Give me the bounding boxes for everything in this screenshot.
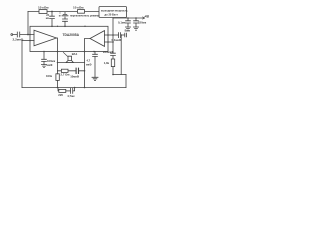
capacitor C8 output 0.1uF bbox=[118, 33, 126, 38]
bottom RC jog: stub down bbox=[57, 88, 60, 91]
svg-text:10мкФ: 10мкФ bbox=[70, 74, 80, 78]
pin dot right edge y=42 bbox=[107, 41, 109, 43]
pin dot bottom x=57.5 bbox=[57, 51, 59, 53]
wire bottom rail y=87.5 bbox=[22, 87, 126, 89]
wire +V rail bbox=[113, 17, 144, 19]
speaker rail wire y=62.5 bbox=[58, 62, 85, 64]
ground under C7 bbox=[41, 65, 46, 68]
junction x=122 on y=35 wire bbox=[120, 34, 122, 36]
wire lower input bbox=[22, 40, 34, 42]
resistor R6 bottom bbox=[59, 89, 66, 92]
pin dot bottom x=84.5 bbox=[84, 51, 86, 53]
svg-text:+В: +В bbox=[144, 14, 149, 18]
svg-text:TDA2005A: TDA2005A bbox=[63, 33, 80, 37]
wire left output down x=57.5 bbox=[57, 38, 58, 71]
svg-text:до 20 Ватт: до 20 Ватт bbox=[105, 13, 119, 17]
wire right amp upper input/output coupling y=35 bbox=[105, 34, 119, 36]
loudspeaker BA1 bbox=[66, 56, 74, 62]
junction bottom rail at x=74.6 bbox=[74, 87, 76, 89]
svg-text:м: м bbox=[59, 15, 61, 18]
svg-text:4,7мк: 4,7мк bbox=[67, 94, 75, 98]
capacitor C1 input (x=17.5..19.5) bbox=[13, 32, 34, 37]
svg-text:10 кОм: 10 кОм bbox=[38, 6, 49, 10]
wire input return vertical x=22 bbox=[21, 41, 23, 88]
node A junction top wire x=52 bbox=[51, 11, 53, 13]
wire top feedback horizontal bbox=[28, 11, 99, 13]
resistor R2 (top middle) bbox=[78, 10, 85, 14]
capacitor C2 (in vertical drop to pin, x=52) bbox=[50, 12, 55, 27]
pin dot bottom x=94 bbox=[93, 51, 95, 53]
resistor R4 zobel bbox=[61, 69, 68, 72]
junction bottom rail at x=84.5 bbox=[84, 87, 86, 89]
junction +V rail x=128 bbox=[127, 17, 129, 19]
pin dot bottom x=44 bbox=[43, 51, 45, 53]
junction bottom rail at x=57.5 bbox=[57, 87, 59, 89]
wire top feedback vertical drop to input bbox=[27, 12, 29, 35]
op-amp A2 right triangle (points left) bbox=[90, 31, 105, 47]
resistor R1 (top left) bbox=[39, 10, 47, 14]
resistor R5 1k bbox=[111, 59, 114, 67]
annotation box (top right note) bbox=[99, 7, 127, 18]
ground symbol bottom right bbox=[92, 77, 98, 80]
svg-text:мкФ: мкФ bbox=[86, 62, 92, 66]
capacitor C9 220uF plates bbox=[111, 53, 116, 55]
svg-text:1,8к: 1,8к bbox=[104, 61, 110, 65]
svg-text:мк: мк bbox=[46, 17, 50, 20]
ground under C4 bbox=[125, 27, 130, 30]
svg-text:100к: 100к bbox=[46, 74, 53, 78]
svg-text:выходная мощность: выходная мощность bbox=[101, 10, 128, 13]
pin dot top x=65 bbox=[64, 26, 66, 28]
pin tick top x=57.5 bbox=[57, 26, 58, 27]
pin dot left edge y=40.5 bbox=[29, 40, 31, 42]
junction x=113 lower input bbox=[112, 41, 114, 43]
svg-text:4,7: 4,7 bbox=[87, 59, 91, 63]
resistor R3 in left output leg bbox=[56, 74, 59, 81]
wire right output: apex left then down x=84.5 bbox=[85, 39, 91, 88]
pin tick top x=85 bbox=[84, 26, 85, 27]
wire to C10 bbox=[66, 90, 71, 92]
pin dot top x=52 bbox=[51, 26, 53, 28]
wire bottom-right horizontal y=74.5 bbox=[113, 74, 126, 76]
wire pin4 cap chain x=44 bbox=[42, 52, 47, 65]
ground under C5 bbox=[133, 27, 138, 30]
supply arrow terminal bbox=[143, 17, 145, 19]
svg-text:220мк: 220мк bbox=[138, 20, 147, 24]
capacitor C11 on ground pin x=95 bbox=[93, 52, 98, 78]
wire feedback chain vertical x=113 bbox=[112, 18, 114, 59]
svg-text:мкФ: мкФ bbox=[47, 63, 53, 67]
junction +V rail x=136 bbox=[135, 17, 137, 19]
capacitor C6 zobel bbox=[76, 68, 78, 73]
junction feedback/input node bbox=[27, 34, 29, 36]
svg-text:2,7 Ом: 2,7 Ом bbox=[61, 73, 70, 77]
svg-text:10 кОм: 10 кОм bbox=[73, 6, 84, 10]
junction left output at speaker rail bbox=[57, 62, 58, 63]
svg-text:Вых: Вых bbox=[125, 28, 131, 32]
junction x=113 output wire bbox=[112, 34, 114, 36]
svg-text:переключатель режима: переключатель режима bbox=[70, 14, 100, 17]
capacitor C5 supply bypass (x=136) bbox=[134, 18, 139, 27]
pin dot left edge y=34.5 bbox=[29, 34, 31, 36]
capacitor C4 supply bypass (x=128) bbox=[126, 18, 131, 27]
svg-text:0,1мкФ: 0,1мкФ bbox=[112, 38, 122, 42]
svg-text:ВА1: ВА1 bbox=[72, 52, 78, 56]
op-amp A1 left triangle bbox=[34, 30, 57, 46]
wire drop x=122 to bottom network bbox=[120, 35, 122, 75]
svg-text:220: 220 bbox=[58, 93, 63, 97]
speaker callout line bbox=[63, 52, 67, 56]
wire right amp lower input y=42 bbox=[105, 41, 114, 43]
svg-text:2,2мкФ: 2,2мкФ bbox=[13, 37, 24, 41]
wire bottom-right vertical x=126 bbox=[125, 75, 127, 88]
input terminal circle bbox=[11, 34, 13, 36]
zobel rail wire y=70.8 bbox=[58, 70, 85, 72]
svg-text:220мкФ: 220мкФ bbox=[103, 50, 114, 54]
capacitor C3 with ground above IC (x=65) bbox=[62, 13, 68, 26]
pin dot right edge y=35 bbox=[107, 34, 109, 36]
junction right output at zobel bbox=[84, 70, 86, 72]
svg-text:0,1мк: 0,1мк bbox=[118, 20, 126, 24]
capacitor C10 bottom bbox=[70, 88, 74, 94]
junction x=113 y=74.5 bbox=[112, 74, 114, 76]
IC U1 box outline bbox=[30, 26, 108, 51]
